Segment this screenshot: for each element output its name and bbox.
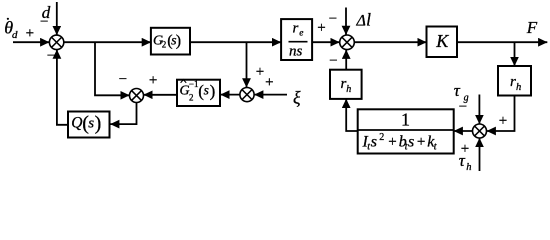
wire K to F output: [457, 41, 547, 43]
svg-text:h: h: [346, 84, 351, 95]
svg-text:s: s: [371, 134, 377, 151]
svg-text:+: +: [26, 25, 34, 41]
wire thetad input arrow into S1: [13, 41, 49, 43]
svg-text:−1: −1: [189, 79, 199, 89]
block K: [427, 27, 458, 58]
wire branch down to S2 left: [95, 42, 130, 95]
svg-text:+: +: [265, 75, 273, 91]
label thetad input: [4, 17, 18, 41]
wire xi input into S3 right: [254, 94, 287, 96]
svg-text:+: +: [149, 72, 157, 88]
svg-text:r: r: [293, 21, 299, 37]
svg-text:+: +: [417, 134, 425, 150]
wire rh1 up to S4 bottom: [345, 50, 347, 70]
svg-text:Δl: Δl: [356, 10, 372, 30]
svg-text:τ: τ: [459, 151, 466, 170]
svg-text:ξ: ξ: [293, 88, 301, 108]
wire S5 to big block right: [454, 130, 473, 132]
wire big block left and up to rh1 bottom: [346, 99, 358, 131]
label tau g: [454, 81, 469, 104]
svg-text:2: 2: [379, 132, 384, 143]
wire Q left and up to S1 bottom: [57, 50, 69, 125]
summing junction S2: [130, 89, 144, 103]
wire re/ns to S4: [313, 41, 340, 43]
label tau h: [459, 151, 472, 173]
svg-text:s: s: [88, 115, 94, 131]
svg-text:): ): [210, 81, 216, 100]
summing junction S1: [49, 35, 63, 49]
wire S3 to Ghat block: [220, 94, 239, 96]
block G2(s): [151, 28, 190, 55]
svg-text:h: h: [516, 82, 521, 93]
block Ghat2^-1(s): [177, 79, 220, 106]
svg-text:ns: ns: [289, 44, 303, 60]
svg-text:−: −: [329, 11, 337, 27]
svg-text:s: s: [204, 82, 209, 97]
svg-text:K: K: [435, 31, 449, 51]
svg-text:Q: Q: [71, 114, 82, 131]
wire tau_g into S5 top: [478, 95, 480, 125]
svg-text:h: h: [466, 162, 471, 173]
svg-text:−: −: [459, 99, 467, 115]
svg-text:+: +: [256, 64, 264, 80]
svg-text:): ): [176, 33, 181, 50]
svg-text:): ): [95, 113, 102, 135]
svg-text:t: t: [434, 142, 437, 153]
svg-text:−: −: [40, 14, 48, 30]
summing junction S3: [240, 88, 254, 102]
wire G2 to re/ns: [190, 41, 281, 43]
svg-text:+: +: [317, 20, 325, 36]
wire branch down to S3 top: [246, 42, 248, 87]
wire Ghat to S2 right: [144, 94, 178, 96]
block re/ns: [281, 19, 312, 60]
svg-text:2: 2: [162, 40, 167, 50]
svg-text:1: 1: [401, 110, 410, 130]
block Q(s): [68, 112, 110, 138]
summing junction S5: [473, 124, 487, 138]
block rh2: [498, 66, 531, 96]
wire S2 down and left to Q: [110, 103, 136, 125]
svg-text:−: −: [119, 72, 127, 88]
svg-text:+: +: [388, 134, 396, 150]
svg-text:−: −: [47, 48, 55, 64]
block 1/(Its2+bts+kt): [358, 109, 454, 153]
wire tau_h into S5 bottom: [479, 138, 481, 171]
wire dl input into S4 top: [345, 8, 347, 35]
svg-text:−: −: [329, 53, 337, 69]
block rh1: [330, 70, 362, 99]
wire S1 to G2: [64, 41, 151, 43]
svg-text:e: e: [299, 28, 303, 38]
svg-text:s: s: [408, 134, 414, 151]
wire rh2 down and left to S5 right: [487, 96, 515, 132]
wire S4 to K: [354, 41, 426, 43]
svg-text:2: 2: [189, 92, 194, 102]
svg-text:d: d: [12, 29, 18, 41]
summing junction S4: [340, 35, 355, 50]
wire branch down to rh2 top: [514, 42, 516, 66]
svg-text:F: F: [526, 18, 538, 37]
wire d input into S1 top: [56, 2, 58, 35]
svg-text:τ: τ: [454, 81, 461, 100]
svg-text:+: +: [499, 113, 507, 129]
